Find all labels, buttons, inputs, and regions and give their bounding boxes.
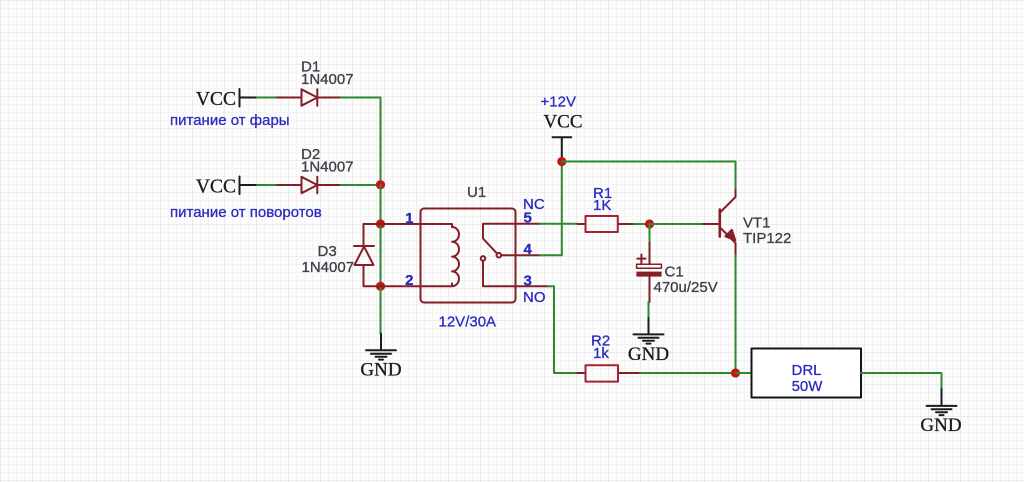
ground (relay) xyxy=(366,334,396,360)
junction pin2 row xyxy=(376,282,385,291)
wire D1 to main vertical xyxy=(341,98,381,185)
diode D2 xyxy=(277,177,341,193)
svg-text:1N4007: 1N4007 xyxy=(301,159,354,176)
wire main vertical to pin1 row xyxy=(380,185,382,224)
DRL load box xyxy=(752,349,862,398)
svg-text:1k: 1k xyxy=(593,345,609,362)
pin 4 lead xyxy=(516,254,541,256)
svg-text:C1: C1 xyxy=(665,264,684,281)
wire pin4 up to +12V rail xyxy=(540,162,562,256)
relay switch (NC blade + NO contact) xyxy=(481,224,516,287)
svg-text:VCC: VCC xyxy=(196,89,236,110)
svg-text:3: 3 xyxy=(524,273,532,290)
junction D2/main xyxy=(376,180,385,189)
pin 1 lead xyxy=(381,223,421,225)
capacitor C1 xyxy=(636,243,661,302)
power port +12V / VCC xyxy=(541,94,583,162)
transistor VT1 xyxy=(720,190,736,255)
svg-text:VT1: VT1 xyxy=(743,215,771,232)
resistor R2 xyxy=(578,365,641,381)
svg-text:TIP122: TIP122 xyxy=(743,230,791,247)
pin 2 lead xyxy=(381,285,421,287)
wire D2 to main vertical xyxy=(341,184,381,186)
junction base/C1 xyxy=(645,219,654,228)
svg-text:NC: NC xyxy=(523,196,545,213)
diode D3 (flyback) xyxy=(354,224,381,286)
svg-text:2: 2 xyxy=(405,272,413,289)
wire pin3 down to R2 row xyxy=(548,286,578,373)
wire +12V rail to collector xyxy=(562,162,736,191)
svg-text:DRL: DRL xyxy=(791,362,821,379)
wire pin5 to R1 xyxy=(540,223,578,225)
svg-text:питание от фары: питание от фары xyxy=(170,112,290,129)
svg-text:NO: NO xyxy=(523,289,546,306)
svg-text:U1: U1 xyxy=(467,184,486,201)
wire DRL to ground xyxy=(861,373,942,389)
wire C1 to ground xyxy=(648,302,650,318)
svg-text:1N4007: 1N4007 xyxy=(301,71,354,88)
svg-text:VCC: VCC xyxy=(543,112,582,133)
wire emitter down xyxy=(735,255,737,373)
diode D1 xyxy=(277,89,341,105)
junction emitter/DRL xyxy=(731,368,740,377)
svg-text:470u/25V: 470u/25V xyxy=(654,279,718,296)
power port VCC (turn signal feed) xyxy=(196,177,257,198)
svg-text:1: 1 xyxy=(405,210,413,227)
svg-text:питание от поворотов: питание от поворотов xyxy=(170,204,322,221)
pin 3 lead xyxy=(516,285,549,287)
ground (DRL) xyxy=(927,389,957,415)
svg-text:50W: 50W xyxy=(792,378,824,395)
svg-text:4: 4 xyxy=(524,241,533,258)
svg-text:GND: GND xyxy=(628,344,669,365)
wire VCC1 to D1 anode xyxy=(257,97,278,99)
svg-text:VCC: VCC xyxy=(196,177,236,198)
junction +12V rail xyxy=(557,157,566,166)
wire R1 to junction xyxy=(634,223,650,225)
junction pin1 row xyxy=(376,219,385,228)
wire junction to base xyxy=(650,223,704,225)
base lead xyxy=(703,223,718,225)
relay coil xyxy=(421,224,460,286)
svg-text:+12V: +12V xyxy=(541,94,576,111)
wire junction to DRL xyxy=(736,372,752,374)
wire main vertical to pin2 row xyxy=(380,224,382,286)
svg-text:GND: GND xyxy=(920,415,961,436)
power port VCC (headlight feed) xyxy=(196,89,257,110)
svg-text:D3: D3 xyxy=(318,243,337,260)
resistor R1 xyxy=(578,216,635,232)
svg-text:1N4007: 1N4007 xyxy=(302,259,355,276)
svg-text:1K: 1K xyxy=(593,197,611,214)
svg-text:GND: GND xyxy=(360,360,401,381)
wire R2 to junction xyxy=(640,372,736,374)
ground (C1) xyxy=(634,318,664,344)
relay U1 body xyxy=(421,209,516,303)
svg-text:12V/30A: 12V/30A xyxy=(439,314,497,331)
wire to ground xyxy=(380,286,382,333)
wire junction to C1 xyxy=(649,224,651,243)
wire VCC2 to D2 anode xyxy=(257,184,278,186)
pin 5 lead xyxy=(516,223,541,225)
